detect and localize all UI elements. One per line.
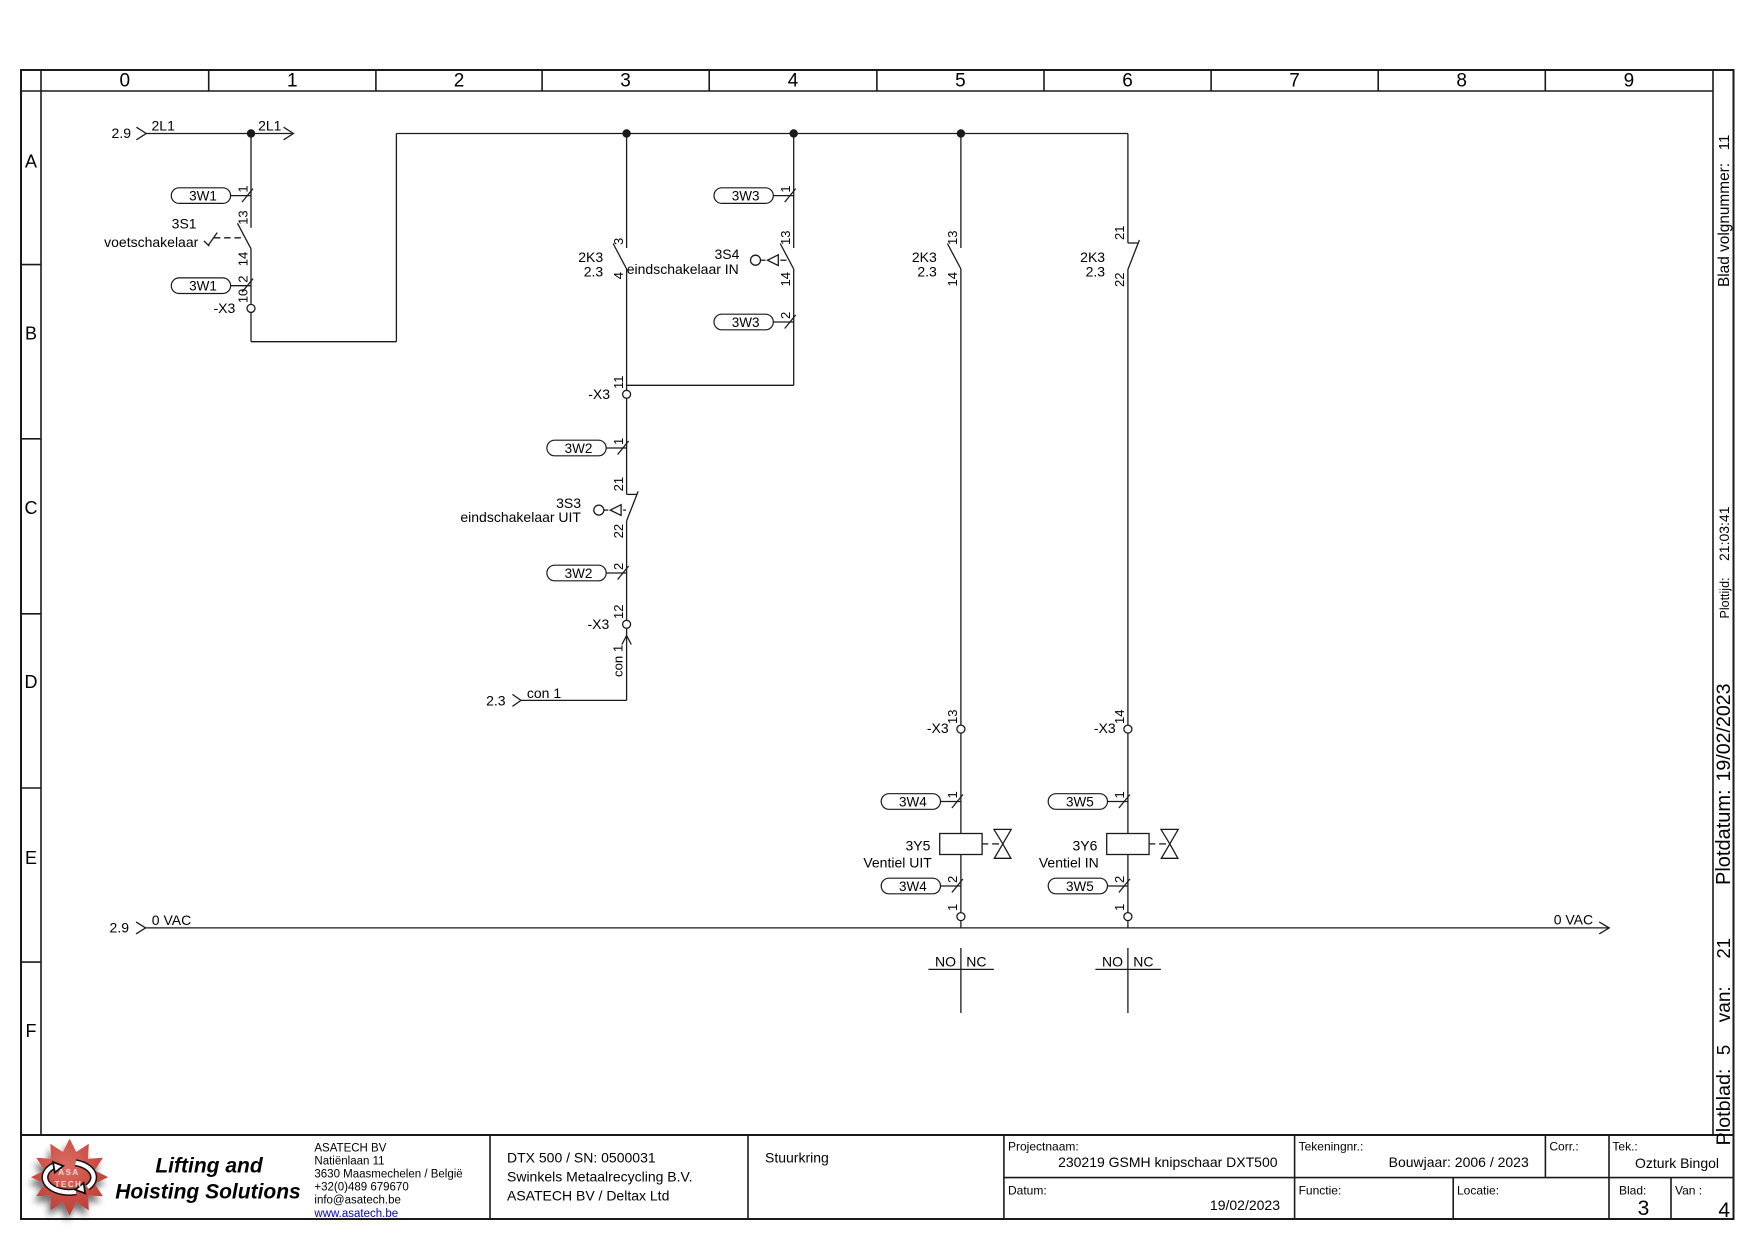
svg-text:0: 0: [120, 71, 131, 92]
svg-text:E: E: [25, 848, 37, 868]
svg-text:eindschakelaar UIT: eindschakelaar UIT: [460, 509, 581, 525]
svg-text:3: 3: [1638, 1197, 1650, 1220]
svg-text:2L1: 2L1: [258, 118, 282, 134]
svg-text:4: 4: [788, 71, 799, 92]
svg-text:7: 7: [1289, 71, 1300, 92]
svg-text:2: 2: [611, 563, 626, 570]
svg-text:Stuurkring: Stuurkring: [765, 1150, 829, 1166]
svg-text:2.3: 2.3: [917, 263, 937, 279]
svg-text:-X3: -X3: [1094, 720, 1116, 736]
svg-text:voetschakelaar: voetschakelaar: [104, 234, 199, 250]
svg-text:B: B: [25, 324, 37, 344]
svg-text:2.9: 2.9: [112, 125, 132, 141]
svg-text:3: 3: [620, 71, 631, 92]
svg-text:3W4: 3W4: [899, 794, 927, 809]
svg-text:3W1: 3W1: [189, 279, 217, 294]
svg-text:10: 10: [235, 289, 250, 303]
svg-text:21: 21: [1112, 226, 1127, 240]
svg-text:1: 1: [945, 791, 960, 798]
svg-text:3S1: 3S1: [172, 216, 197, 232]
svg-text:eindschakelaar IN: eindschakelaar IN: [627, 261, 739, 277]
svg-text:-X3: -X3: [927, 720, 949, 736]
svg-text:22: 22: [1112, 273, 1127, 287]
svg-text:NO: NO: [935, 953, 956, 969]
svg-text:4: 4: [611, 272, 626, 279]
svg-text:van:: van:: [1714, 986, 1735, 1022]
svg-text:Datum:: Datum:: [1008, 1184, 1047, 1198]
svg-text:info@asatech.be: info@asatech.be: [314, 1195, 400, 1207]
svg-text:21:03:41: 21:03:41: [1716, 506, 1732, 561]
svg-text:11: 11: [611, 376, 626, 390]
svg-text:13: 13: [778, 231, 793, 245]
svg-text:Natiënlaan 11: Natiënlaan 11: [314, 1155, 384, 1167]
svg-text:Tekeningnr.:: Tekeningnr.:: [1299, 1140, 1364, 1154]
svg-text:2L1: 2L1: [152, 118, 176, 134]
svg-text:Plotdatum:: Plotdatum:: [1713, 789, 1735, 885]
svg-text:2: 2: [1112, 876, 1127, 883]
svg-text:ASATECH BV / Deltax Ltd: ASATECH BV / Deltax Ltd: [507, 1188, 669, 1204]
svg-text:2: 2: [945, 876, 960, 883]
svg-text:3630 Maasmechelen / België: 3630 Maasmechelen / België: [314, 1169, 462, 1181]
svg-text:3Y5: 3Y5: [905, 838, 930, 854]
svg-text:3W1: 3W1: [189, 188, 217, 203]
svg-text:13: 13: [235, 210, 250, 224]
svg-text:2.3: 2.3: [584, 263, 604, 279]
svg-text:Projectnaam:: Projectnaam:: [1008, 1140, 1079, 1154]
svg-text:13: 13: [945, 231, 960, 245]
svg-text:1: 1: [1112, 904, 1127, 911]
svg-text:5: 5: [955, 71, 966, 92]
svg-text:con 1: con 1: [611, 645, 626, 677]
svg-text:2.9: 2.9: [110, 919, 130, 935]
svg-text:12: 12: [611, 605, 626, 619]
svg-text:Lifting and: Lifting and: [155, 1155, 263, 1178]
svg-text:5: 5: [1713, 1045, 1734, 1055]
svg-text:con 1: con 1: [527, 685, 561, 701]
svg-text:3W2: 3W2: [565, 441, 593, 456]
svg-text:Swinkels Metaalrecycling B.V.: Swinkels Metaalrecycling B.V.: [507, 1169, 692, 1185]
svg-text:+32(0)489 679670: +32(0)489 679670: [314, 1182, 408, 1194]
svg-text:Hoisting Solutions: Hoisting Solutions: [115, 1181, 300, 1204]
svg-text:1: 1: [778, 185, 793, 192]
svg-text:9: 9: [1624, 71, 1635, 92]
svg-text:Bouwjaar: 2006 / 2023: Bouwjaar: 2006 / 2023: [1389, 1154, 1529, 1170]
svg-text:6: 6: [1122, 71, 1133, 92]
svg-text:Locatie:: Locatie:: [1457, 1184, 1499, 1198]
svg-text:8: 8: [1456, 71, 1467, 92]
svg-text:Blad:: Blad:: [1619, 1184, 1646, 1198]
svg-text:14: 14: [235, 252, 250, 266]
svg-text:0 VAC: 0 VAC: [1554, 912, 1593, 928]
svg-text:-X3: -X3: [588, 616, 610, 632]
svg-text:3S4: 3S4: [714, 246, 739, 262]
svg-text:NC: NC: [1133, 953, 1153, 969]
svg-text:3: 3: [611, 238, 626, 245]
svg-text:3W4: 3W4: [899, 879, 927, 894]
svg-text:2: 2: [454, 71, 465, 92]
svg-text:Ventiel UIT: Ventiel UIT: [863, 854, 932, 870]
svg-text:Ventiel IN: Ventiel IN: [1039, 854, 1099, 870]
svg-text:1: 1: [235, 185, 250, 192]
svg-text:Plottijd:: Plottijd:: [1718, 578, 1732, 619]
svg-text:0 VAC: 0 VAC: [152, 912, 191, 928]
svg-text:C: C: [25, 498, 38, 518]
svg-text:ASA: ASA: [58, 1168, 79, 1177]
svg-text:14: 14: [945, 272, 960, 286]
svg-text:Van :: Van :: [1675, 1184, 1702, 1198]
svg-text:19/02/2023: 19/02/2023: [1713, 683, 1735, 781]
svg-text:19/02/2023: 19/02/2023: [1210, 1197, 1280, 1213]
svg-text:230219 GSMH knipschaar DXT500: 230219 GSMH knipschaar DXT500: [1058, 1154, 1278, 1170]
svg-text:3W3: 3W3: [732, 315, 760, 330]
svg-text:D: D: [25, 672, 38, 692]
svg-text:F: F: [26, 1021, 37, 1041]
svg-text:2.3: 2.3: [1086, 263, 1106, 279]
svg-text:1: 1: [611, 438, 626, 445]
svg-text:NO: NO: [1102, 953, 1123, 969]
svg-text:2: 2: [235, 275, 250, 282]
svg-text:3W5: 3W5: [1066, 794, 1094, 809]
svg-text:1: 1: [287, 71, 298, 92]
svg-text:22: 22: [611, 524, 626, 538]
svg-text:1: 1: [945, 904, 960, 911]
svg-text:www.asatech.be: www.asatech.be: [313, 1208, 398, 1220]
svg-text:2.3: 2.3: [486, 693, 506, 709]
svg-text:TECH: TECH: [55, 1180, 83, 1189]
svg-text:A: A: [25, 151, 37, 171]
svg-text:3W5: 3W5: [1066, 879, 1094, 894]
svg-text:Tek.:: Tek.:: [1612, 1140, 1637, 1154]
svg-text:14: 14: [778, 272, 793, 286]
svg-text:3W2: 3W2: [565, 566, 593, 581]
svg-text:Plotblad:: Plotblad:: [1713, 1069, 1735, 1146]
svg-text:Functie:: Functie:: [1299, 1184, 1342, 1198]
svg-text:Blad volgnummer:: Blad volgnummer:: [1716, 163, 1733, 287]
svg-text:-X3: -X3: [214, 300, 236, 316]
svg-text:-X3: -X3: [588, 386, 610, 402]
svg-text:Corr.:: Corr.:: [1549, 1140, 1578, 1154]
svg-text:Ozturk Bingol: Ozturk Bingol: [1635, 1155, 1719, 1171]
svg-text:DTX 500 / SN: 0500031: DTX 500 / SN: 0500031: [507, 1150, 656, 1166]
svg-text:NC: NC: [966, 953, 986, 969]
svg-text:2: 2: [778, 312, 793, 319]
svg-text:3W3: 3W3: [732, 188, 760, 203]
svg-text:21: 21: [611, 477, 626, 491]
svg-text:3Y6: 3Y6: [1072, 838, 1097, 854]
svg-text:1: 1: [1112, 791, 1127, 798]
svg-text:11: 11: [1716, 135, 1733, 151]
svg-text:21: 21: [1713, 938, 1734, 959]
svg-text:ASATECH BV: ASATECH BV: [314, 1142, 386, 1154]
svg-text:4: 4: [1718, 1199, 1730, 1222]
